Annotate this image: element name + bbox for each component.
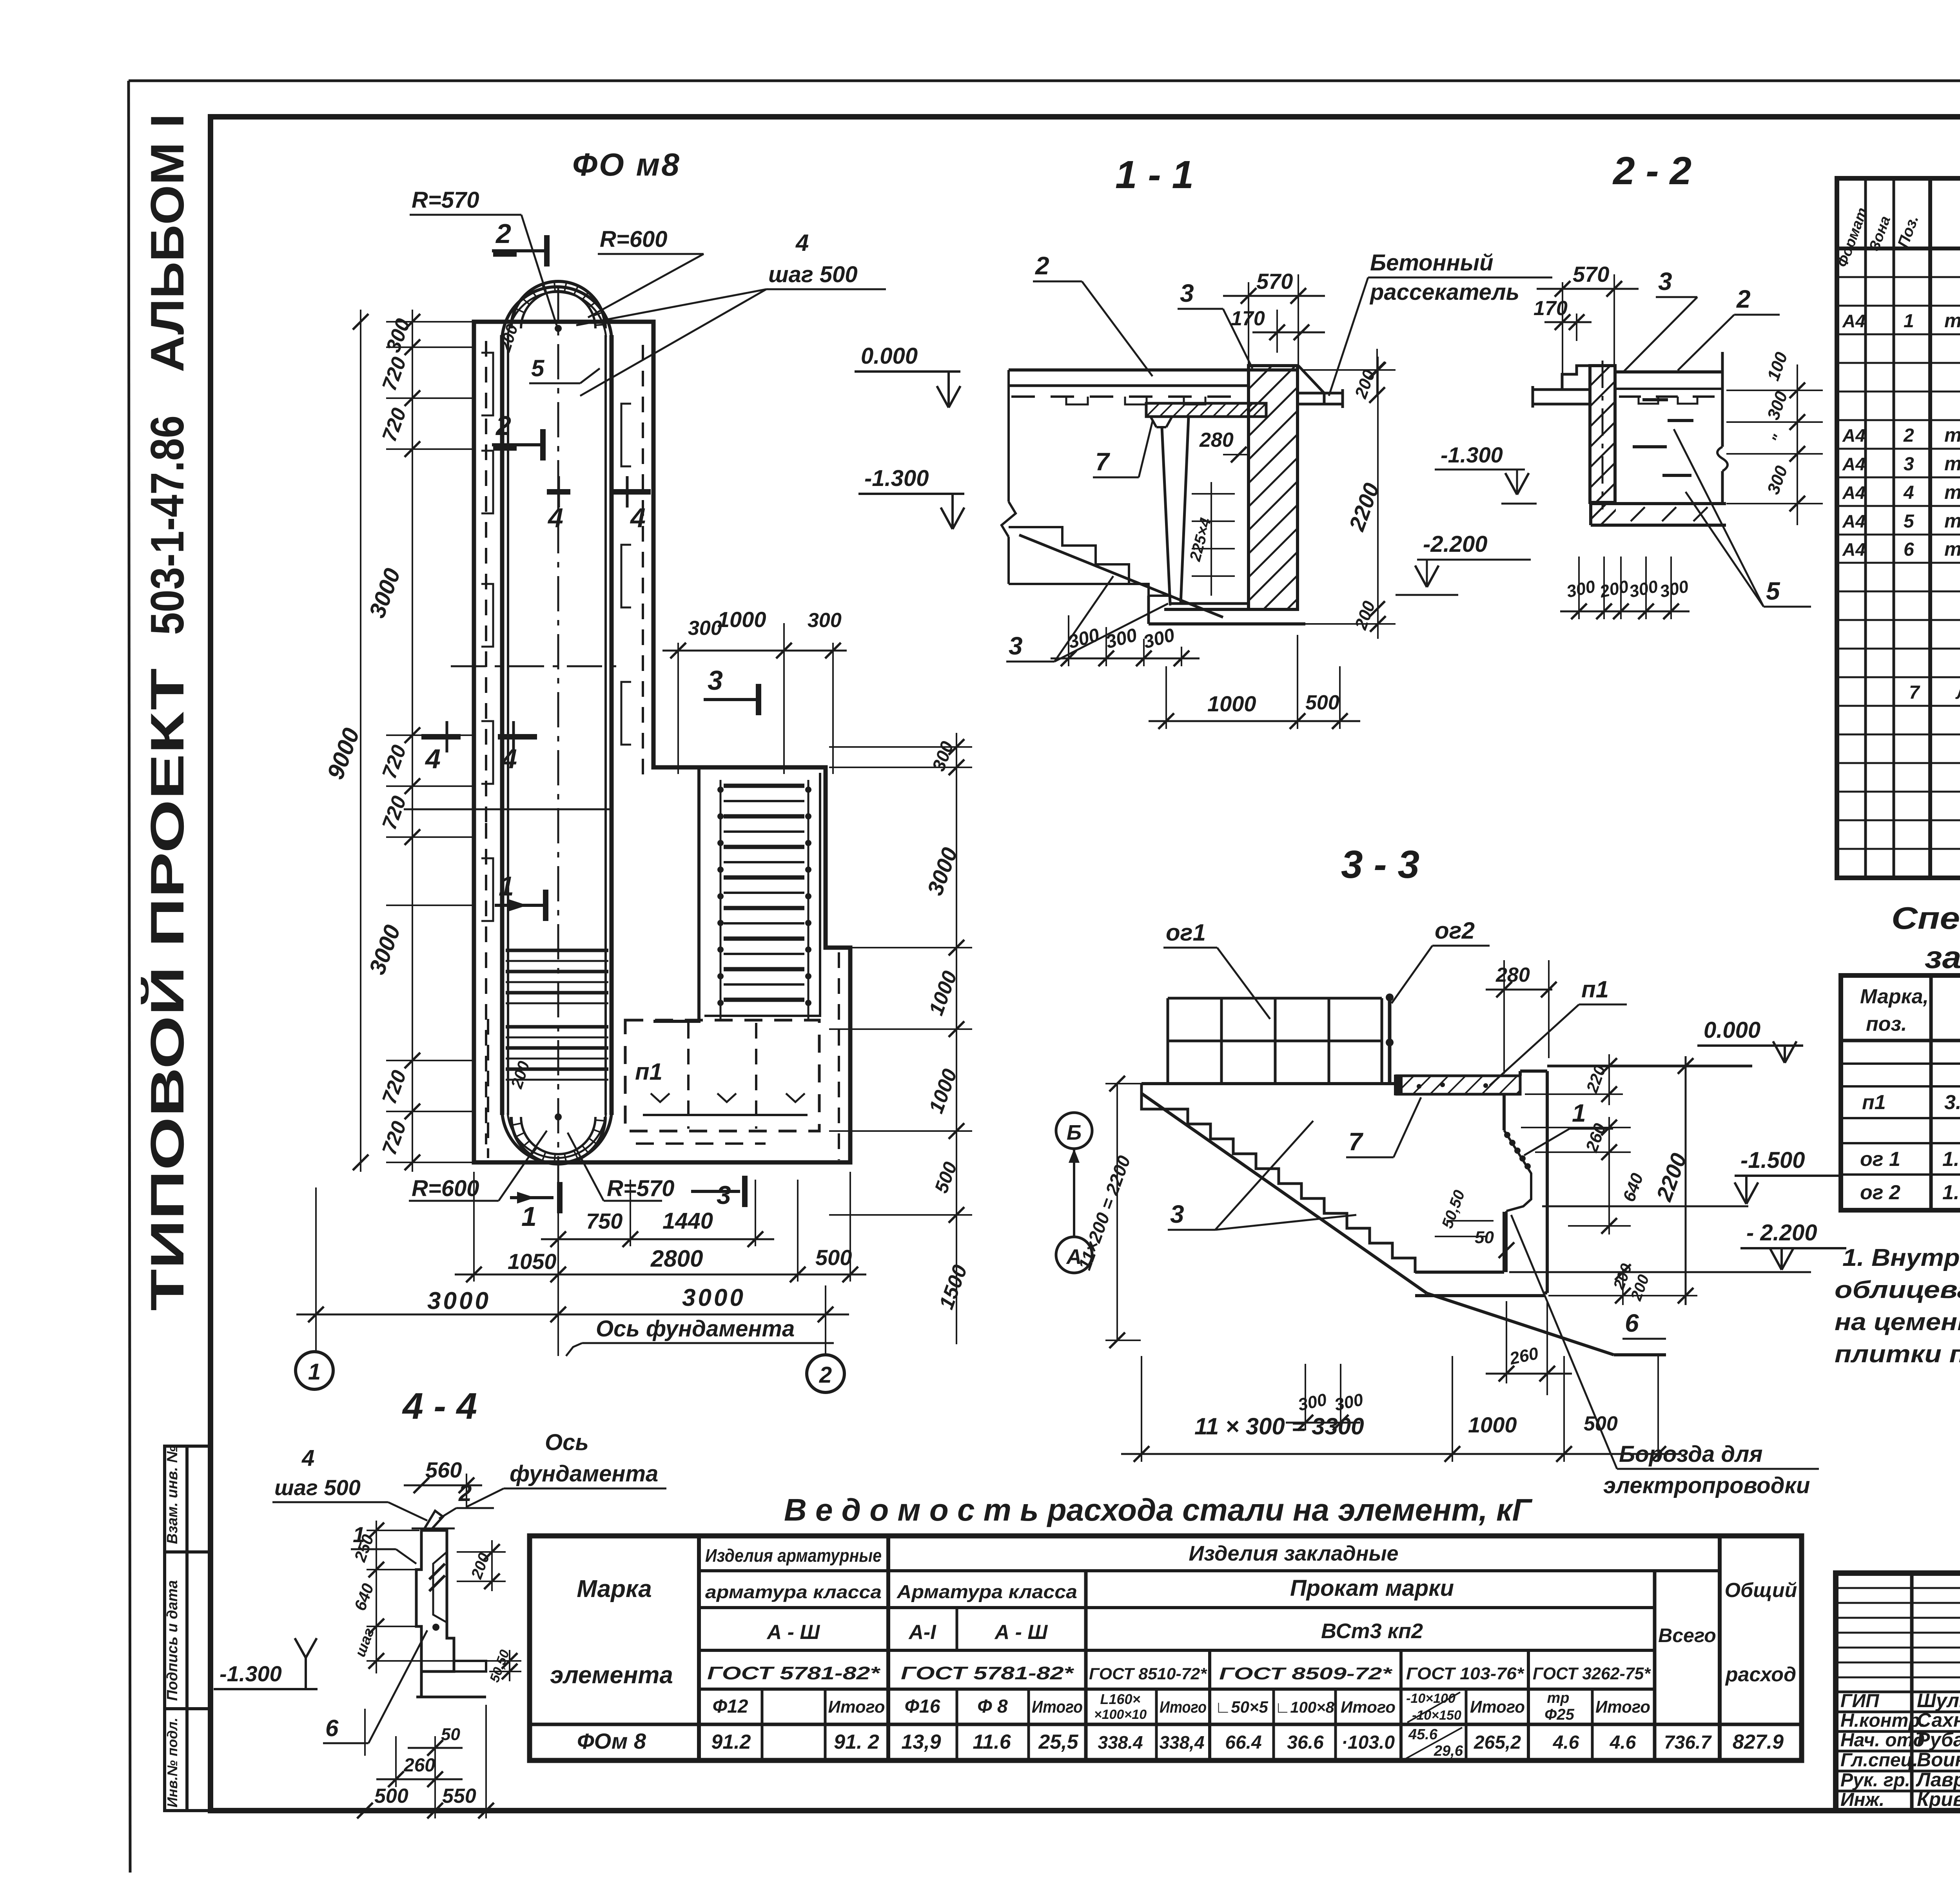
svg-text:4.6: 4.6	[1553, 1732, 1579, 1753]
svg-text:5: 5	[1904, 511, 1915, 532]
pit walls 3-3	[1503, 1094, 1506, 1130]
sidebar lower stamp boxes	[165, 1446, 211, 1811]
svg-text:4: 4	[630, 502, 646, 533]
svg-text:2 - 2: 2 - 2	[1612, 149, 1691, 193]
svg-text:Спецификация элементов кон: Спецификация элементов конструкций	[1891, 901, 1960, 935]
svg-text:5: 5	[531, 355, 545, 381]
svg-text:-1.300: -1.300	[1441, 442, 1503, 467]
svg-text:260: 260	[403, 1755, 435, 1776]
svg-text:ог1: ог1	[1166, 919, 1206, 946]
svg-text:1. Внутрение поверхности: 1. Внутрение поверхности стен фундамента…	[1842, 1244, 1960, 1271]
svg-text:Марка,: Марка,	[1860, 985, 1929, 1008]
svg-text:Изделия закладные: Изделия закладные	[1189, 1542, 1398, 1565]
svg-text:45.6: 45.6	[1408, 1726, 1438, 1743]
plan left dimension chains	[386, 321, 474, 323]
svg-text:Б: Б	[1067, 1121, 1082, 1144]
svg-text:R=570: R=570	[412, 187, 479, 213]
svg-text:50: 50	[441, 1725, 460, 1744]
excavation steps	[1009, 527, 1129, 584]
svg-text:Итого: Итого	[1160, 1698, 1207, 1716]
svg-text:шаг 500: шаг 500	[768, 262, 858, 287]
fence og2 post	[1388, 995, 1392, 1084]
svg-text:ог 2: ог 2	[1860, 1181, 1900, 1204]
svg-text:1: 1	[1904, 311, 1914, 332]
svg-text:Рубан: Рубан	[1917, 1729, 1960, 1751]
svg-text:3: 3	[1658, 267, 1672, 295]
svg-text:Ф16: Ф16	[905, 1696, 940, 1717]
svg-text:570: 570	[1256, 269, 1293, 294]
svg-text:1. 450. 3 - 3 , Вып. 1: 1. 450. 3 - 3 , Вып. 1	[1942, 1181, 1960, 1204]
centerline vertical	[557, 286, 559, 1211]
svg-text:поз.: поз.	[1866, 1013, 1907, 1035]
svg-text:ГИП: ГИП	[1840, 1691, 1880, 1711]
svg-text:560: 560	[425, 1457, 462, 1482]
svg-text:25,5: 25,5	[1038, 1731, 1078, 1753]
svg-text:66.4: 66.4	[1225, 1732, 1261, 1753]
svg-text:Бетонный: Бетонный	[1370, 250, 1494, 276]
svg-text:2: 2	[495, 410, 511, 441]
svg-text:4: 4	[547, 502, 563, 533]
svg-text:11.6: 11.6	[973, 1731, 1011, 1753]
svg-text:электропроводки: электропроводки	[1603, 1473, 1810, 1498]
svg-text:ог2: ог2	[1435, 917, 1475, 944]
small ledges along left wall	[481, 353, 493, 415]
axis circles B A	[1056, 1113, 1092, 1149]
svg-text:7: 7	[1909, 682, 1920, 703]
svg-text:265,2: 265,2	[1474, 1732, 1521, 1753]
stairs 3-3	[1165, 1109, 1415, 1273]
svg-text:ГОСТ 8509-72*: ГОСТ 8509-72*	[1219, 1664, 1393, 1683]
svg-text:-2.200: -2.200	[1423, 531, 1487, 557]
svg-text:L160×: L160×	[1100, 1691, 1140, 1707]
fence grid og1	[1167, 998, 1169, 1084]
svg-text:лист 25: лист 25	[1955, 681, 1960, 703]
inner dashes 2-2	[1642, 398, 1668, 401]
svg-text:замаркированных на данном: замаркированных на данном листе.	[1925, 940, 1960, 975]
svg-text:Ось фундамента: Ось фундамента	[596, 1316, 795, 1341]
bottom dims 3-3	[1305, 1364, 1306, 1430]
svg-text:Гл.спец.: Гл.спец.	[1840, 1750, 1918, 1771]
svg-text:R=600: R=600	[600, 227, 668, 252]
svg-text:Итого: Итого	[1341, 1698, 1396, 1716]
svg-text:тп: тп	[1944, 453, 1960, 475]
dims 2-2 top	[1562, 282, 1563, 388]
svg-text:Шульгин: Шульгин	[1917, 1690, 1960, 1711]
svg-text:·103.0: ·103.0	[1341, 1732, 1395, 1753]
svg-text:1: 1	[499, 871, 514, 901]
bottom dims 300x3	[1068, 615, 1069, 666]
left broken edge	[1007, 370, 1010, 502]
plan right dimension chain	[829, 746, 972, 748]
svg-text:1000: 1000	[1468, 1412, 1517, 1437]
225x4 dim small	[1210, 482, 1212, 596]
svg-text:1: 1	[521, 1201, 537, 1232]
svg-text:×100×10: ×100×10	[1094, 1707, 1147, 1722]
svg-text:R=570: R=570	[607, 1176, 675, 1201]
svg-text:-1.300: -1.300	[864, 466, 929, 491]
svg-text:R=600: R=600	[412, 1176, 479, 1201]
svg-text:Инж.: Инж.	[1840, 1789, 1884, 1810]
ground line right 3-3	[1547, 1065, 1752, 1068]
svg-text:А - Ш: А - Ш	[994, 1621, 1048, 1644]
svg-text:п1: п1	[1581, 976, 1609, 1002]
bottom dims 1000/500	[1165, 666, 1167, 729]
svg-text:- 2.200: - 2.200	[1746, 1220, 1817, 1245]
svg-text:А4: А4	[1842, 311, 1866, 331]
svg-text:А4: А4	[1842, 454, 1866, 474]
bottom dims 4-4	[364, 1709, 366, 1756]
svg-text:облицевать белой керамическ: облицевать белой керамической плиткой по…	[1835, 1276, 1960, 1303]
svg-text:∟50×5: ∟50×5	[1215, 1698, 1268, 1716]
svg-text:3000: 3000	[682, 1284, 746, 1311]
svg-text:3: 3	[1904, 454, 1914, 475]
svg-text:827.9: 827.9	[1733, 1731, 1784, 1753]
svg-text:А4: А4	[1842, 539, 1866, 560]
svg-text:36.6: 36.6	[1287, 1732, 1324, 1753]
svg-text:2: 2	[1736, 285, 1751, 313]
svg-text:А4: А4	[1842, 511, 1866, 531]
svg-text:500: 500	[815, 1245, 852, 1270]
inner channel walls of section	[1162, 427, 1170, 604]
svg-text:Итого: Итого	[1595, 1697, 1650, 1717]
svg-text:280: 280	[1199, 429, 1234, 451]
svg-text:1. 450. 3 - 3 , вып. 1: 1. 450. 3 - 3 , вып. 1	[1942, 1148, 1960, 1171]
dim 570/170 top	[1248, 282, 1249, 364]
steel table grid	[530, 1536, 1802, 1760]
svg-text:Ось: Ось	[545, 1430, 589, 1455]
spec table 1 grid	[1837, 178, 1960, 878]
berm top line	[1142, 1082, 1399, 1085]
title block main	[1836, 1573, 1960, 1811]
bottom protractor arc	[511, 1117, 605, 1164]
svg-text:1000: 1000	[1207, 691, 1256, 716]
svg-text:ГОСТ 103-76*: ГОСТ 103-76*	[1406, 1664, 1524, 1683]
small dims inside 3-3	[1521, 1127, 1631, 1128]
svg-text:4: 4	[501, 743, 517, 774]
svg-text:фундамента: фундамента	[510, 1461, 658, 1486]
svg-text:Ф 8: Ф 8	[977, 1696, 1008, 1717]
svg-text:ГОСТ 5781-82*: ГОСТ 5781-82*	[901, 1663, 1074, 1683]
top slab right 2-2	[1615, 370, 1722, 373]
right dims 2-2 rotated	[1726, 390, 1823, 391]
svg-text:Рук. гр.: Рук. гр.	[1840, 1770, 1910, 1791]
svg-text:500: 500	[374, 1785, 408, 1807]
main frame	[211, 117, 1960, 1811]
svg-text:Марка: Марка	[577, 1575, 652, 1603]
svg-text:3: 3	[1009, 632, 1023, 660]
spec table 2 grid	[1841, 975, 1960, 1210]
svg-text:-1.500: -1.500	[1740, 1148, 1805, 1173]
svg-text:2: 2	[1035, 252, 1049, 280]
svg-text:750: 750	[586, 1209, 622, 1233]
svg-text:503-1-47.86: 503-1-47.86	[141, 415, 194, 635]
svg-text:4: 4	[425, 743, 441, 774]
svg-text:А - Ш: А - Ш	[766, 1621, 820, 1644]
section 1-1 dims right	[1301, 369, 1396, 371]
svg-text:7: 7	[1095, 448, 1111, 476]
svg-text:1000: 1000	[717, 607, 766, 632]
svg-text:ФО м8: ФО м8	[572, 147, 681, 183]
svg-text:∟100×8: ∟100×8	[1275, 1699, 1334, 1716]
section cut marks on plan	[492, 249, 547, 252]
svg-text:300: 300	[808, 609, 842, 632]
stair pit inner contour	[653, 767, 699, 1021]
svg-text:элемента: элемента	[550, 1662, 673, 1689]
svg-text:5: 5	[1766, 577, 1780, 605]
svg-text:338,4: 338,4	[1159, 1732, 1204, 1753]
svg-text:А4: А4	[1842, 482, 1866, 503]
left flange	[1533, 388, 1590, 391]
svg-text:Лавренко: Лавренко	[1916, 1769, 1960, 1791]
svg-text:1050: 1050	[508, 1249, 557, 1274]
svg-text:4: 4	[795, 230, 809, 256]
centerline thru wall 2-2	[1602, 361, 1604, 509]
svg-text:Изделия арматурные: Изделия арматурные	[705, 1545, 882, 1566]
dims 300 1000 300 above stair	[677, 643, 679, 774]
svg-text:3: 3	[1180, 279, 1194, 307]
svg-text:11 × 300 = 3300: 11 × 300 = 3300	[1194, 1413, 1364, 1439]
svg-text:Итого: Итого	[1032, 1697, 1083, 1717]
bottom dims 2-2	[1578, 557, 1580, 619]
centerline horizontal mid	[451, 665, 619, 667]
svg-text:тр: тр	[1547, 1690, 1570, 1706]
svg-text:ГОСТ 8510-72*: ГОСТ 8510-72*	[1089, 1664, 1207, 1683]
wall hatched 2-2	[1590, 366, 1615, 502]
svg-text:91.2: 91.2	[711, 1731, 751, 1753]
inner channel walls (double lines)	[500, 335, 505, 1115]
svg-text:шаг 500: шаг 500	[274, 1475, 361, 1500]
svg-text:ВСт3 кп2: ВСт3 кп2	[1321, 1619, 1423, 1643]
beam slab with hatch	[1146, 403, 1266, 417]
svg-text:А-I: А-I	[908, 1621, 936, 1644]
svg-text:Кривчук: Кривчук	[1917, 1788, 1960, 1810]
svg-text:Н.контр.: Н.контр.	[1840, 1710, 1925, 1731]
svg-text:3 - 3: 3 - 3	[1341, 843, 1419, 886]
svg-text:570: 570	[1573, 262, 1609, 286]
svg-text:300: 300	[688, 617, 722, 640]
svg-text:-1.300: -1.300	[220, 1661, 282, 1686]
p1 dashed slab zone	[625, 1020, 819, 1131]
svg-text:расход: расход	[1725, 1663, 1796, 1686]
svg-text:736.7: 736.7	[1664, 1732, 1712, 1753]
svg-text:6: 6	[325, 1715, 339, 1741]
svg-text:рассекатель: рассекатель	[1369, 279, 1519, 305]
svg-text:тп: тп	[1944, 424, 1960, 446]
svg-text:1440: 1440	[662, 1208, 713, 1234]
svg-text:ГОСТ 5781-82*: ГОСТ 5781-82*	[707, 1663, 881, 1683]
svg-text:338.4: 338.4	[1098, 1732, 1143, 1753]
svg-text:2800: 2800	[650, 1245, 703, 1272]
svg-text:Прокат марки: Прокат марки	[1290, 1575, 1454, 1601]
top anchor mark 4-4	[423, 1511, 443, 1530]
svg-text:тп: тп	[1944, 538, 1960, 560]
svg-text:4: 4	[1903, 482, 1914, 503]
svg-text:тп: тп	[1944, 310, 1960, 332]
svg-text:ГОСТ 3262-75*: ГОСТ 3262-75*	[1533, 1664, 1651, 1683]
svg-text:13,9: 13,9	[901, 1731, 941, 1753]
svg-text:ТИПОВОЙ ПРОЕКТ: ТИПОВОЙ ПРОЕКТ	[140, 668, 194, 1311]
svg-text:АЛЬБОМ I: АЛЬБОМ I	[141, 114, 194, 372]
svg-text:500: 500	[1584, 1412, 1618, 1435]
svg-text:Арматура класса: Арматура класса	[897, 1582, 1077, 1603]
stair tread hatch bars	[724, 784, 804, 788]
svg-text:п1: п1	[635, 1059, 662, 1085]
outer ground contour 3-3	[1142, 1084, 1165, 1109]
svg-text:ог 1: ог 1	[1860, 1148, 1900, 1171]
footing bottom 3-3	[1415, 1294, 1544, 1297]
svg-text:А4: А4	[1842, 425, 1866, 446]
svg-text:29,6: 29,6	[1434, 1743, 1463, 1759]
svg-text:ФОм 8: ФОм 8	[577, 1729, 646, 1753]
svg-text:3.006.1-2/82 вып.1-2: 3.006.1-2/82 вып.1-2	[1944, 1091, 1960, 1114]
svg-text:Инв.№ подл.: Инв.№ подл.	[164, 1718, 180, 1807]
svg-text:Взам. инв. №: Взам. инв. №	[164, 1446, 181, 1544]
svg-text:2: 2	[495, 218, 511, 249]
svg-text:4 - 4: 4 - 4	[402, 1385, 477, 1427]
svg-text:Сахновская: Сахновская	[1917, 1709, 1960, 1731]
stair diagonal	[1142, 1093, 1427, 1293]
svg-text:6: 6	[1904, 539, 1914, 560]
svg-text:4.6: 4.6	[1610, 1732, 1636, 1753]
svg-text:170: 170	[1534, 297, 1568, 320]
svg-text:Ф12: Ф12	[713, 1696, 748, 1717]
svg-text:Итого: Итого	[828, 1697, 885, 1717]
base slab 4-4	[454, 1661, 486, 1671]
svg-text:Итого: Итого	[1470, 1697, 1525, 1717]
svg-text:2: 2	[1903, 425, 1914, 446]
pipe right	[1298, 392, 1343, 395]
svg-text:3: 3	[1170, 1200, 1184, 1228]
pit bottom slab	[1164, 608, 1298, 611]
svg-text:Нач. отд: Нач. отд	[1840, 1730, 1925, 1751]
bottom wide band lines	[487, 1019, 489, 1158]
svg-text:плитки по гост 6787-80. Ни: плитки по гост 6787-80. Ниши для освещен…	[1835, 1341, 1960, 1368]
svg-text:4: 4	[301, 1445, 314, 1471]
corbel step	[1562, 366, 1590, 390]
svg-text:1: 1	[308, 1359, 321, 1385]
svg-text:7: 7	[1348, 1128, 1364, 1156]
svg-text:500: 500	[1305, 691, 1339, 714]
dim 2200 left 3-3	[1116, 1084, 1118, 1340]
axis circles	[296, 1352, 333, 1389]
plan outer contour	[474, 322, 850, 1162]
svg-text:на цементном растворе. Полы: на цементном растворе. Полы выполнять из…	[1835, 1309, 1960, 1336]
svg-text:0.000: 0.000	[861, 343, 918, 369]
svg-text:50: 50	[1475, 1228, 1494, 1247]
svg-text:1: 1	[1572, 1099, 1586, 1127]
svg-text:2: 2	[819, 1362, 832, 1388]
svg-text:280: 280	[1495, 964, 1530, 986]
outer cut border	[129, 80, 1960, 82]
svg-text:тп: тп	[1944, 481, 1960, 503]
dashed offsets left of channel	[485, 341, 487, 823]
svg-text:3: 3	[717, 1180, 731, 1209]
svg-text:Всего: Всего	[1658, 1624, 1716, 1646]
hatch bands in channel bottom	[506, 949, 608, 952]
inner bracket 4-4	[433, 1552, 447, 1622]
stair side dots	[717, 787, 724, 793]
svg-text:арматура класса: арматура класса	[705, 1582, 882, 1602]
svg-text:6: 6	[1625, 1309, 1639, 1337]
plan bottom dims	[630, 1180, 631, 1246]
svg-text:п1: п1	[1862, 1091, 1886, 1114]
svg-text:550: 550	[442, 1785, 476, 1807]
pier wall hatched	[1249, 366, 1298, 609]
road slab top	[1009, 368, 1298, 372]
svg-text:1 - 1: 1 - 1	[1115, 153, 1194, 197]
wall cross-section 4-4	[416, 1530, 454, 1671]
svg-text:0.000: 0.000	[1704, 1017, 1760, 1043]
svg-text:тп: тп	[1944, 510, 1960, 532]
svg-text:3: 3	[708, 665, 723, 696]
slab p1 hatched in 3-3	[1397, 1076, 1520, 1094]
bottom slab 2-2	[1591, 502, 1726, 505]
svg-text:170: 170	[1231, 307, 1265, 330]
right edge line 2-2	[1721, 352, 1724, 447]
svg-text:В е д о м о с т ь расхода: В е д о м о с т ь расхода стали на элеме…	[784, 1492, 1533, 1527]
rassekatel top	[1298, 366, 1324, 404]
top protractor arc	[511, 281, 605, 328]
right dim chain 3-3	[1525, 1093, 1623, 1095]
svg-text:Ф25: Ф25	[1544, 1706, 1574, 1723]
svg-text:91. 2: 91. 2	[834, 1731, 879, 1753]
svg-text:3000: 3000	[427, 1287, 491, 1314]
svg-text:Подпись и дата: Подпись и дата	[164, 1580, 181, 1701]
niche in wall 3-3	[1504, 1130, 1531, 1211]
svg-text:Общий: Общий	[1725, 1579, 1797, 1602]
svg-text:Воинов: Воинов	[1917, 1749, 1960, 1771]
